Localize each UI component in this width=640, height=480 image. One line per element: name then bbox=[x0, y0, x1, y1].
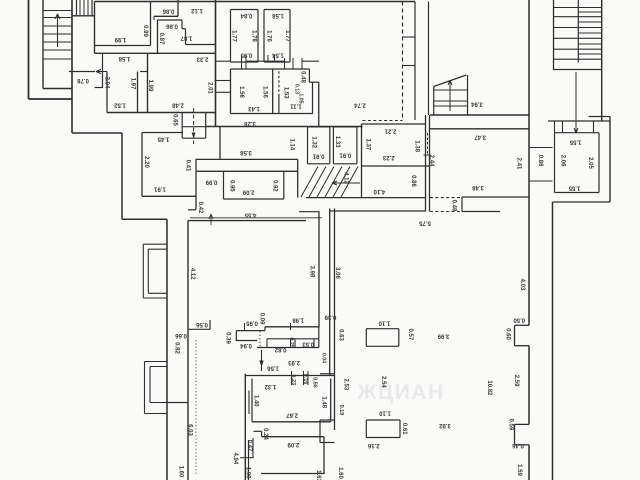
room 2.06 bbox=[555, 192, 600, 194]
wall bbox=[182, 28, 186, 30]
box room bbox=[365, 329, 367, 347]
wall bbox=[215, 0, 217, 127]
right stair tread half bbox=[578, 53, 601, 55]
outer wall bbox=[552, 202, 554, 480]
entry stair box bottom bbox=[434, 105, 468, 107]
box room bbox=[399, 420, 401, 438]
band line bbox=[529, 180, 553, 182]
wall bbox=[329, 209, 331, 376]
box room bbox=[366, 328, 399, 330]
entry stair slant bbox=[434, 75, 467, 87]
right stairs left wall bbox=[528, 0, 530, 325]
box 0.84 bbox=[257, 10, 259, 63]
svg-text:2.53: 2.53 bbox=[343, 379, 349, 391]
wall bbox=[235, 331, 237, 341]
wall bbox=[553, 201, 611, 203]
balcony outer bbox=[142, 244, 144, 298]
wall bbox=[362, 165, 430, 167]
room 2.67 bottom bbox=[252, 421, 331, 423]
room 2.09a bottom bbox=[224, 198, 284, 200]
svg-text:0.50: 0.50 bbox=[513, 316, 525, 322]
svg-text:0.95: 0.95 bbox=[229, 180, 235, 192]
stair tread bbox=[43, 58, 72, 60]
tick bbox=[291, 371, 293, 385]
mini stair arrow head bbox=[192, 133, 196, 139]
stair fan tread bbox=[325, 167, 342, 198]
tick bbox=[307, 371, 309, 385]
balcony outer bbox=[143, 243, 167, 245]
mini stair cell line bbox=[182, 126, 206, 128]
wall bbox=[428, 2, 430, 85]
stair tread bbox=[43, 10, 72, 12]
dim tick bbox=[290, 323, 292, 330]
svg-text:1.97: 1.97 bbox=[129, 78, 135, 90]
shaft line bbox=[403, 36, 416, 38]
wall bbox=[265, 326, 319, 328]
svg-text:0.47: 0.47 bbox=[246, 440, 252, 452]
svg-text:0.13: 0.13 bbox=[293, 84, 299, 94]
wall bbox=[205, 126, 363, 128]
svg-text:1.45: 1.45 bbox=[157, 135, 169, 141]
balcony inner bbox=[149, 367, 151, 403]
step bbox=[308, 69, 310, 82]
stair tread bbox=[43, 49, 72, 51]
svg-text:3.48: 3.48 bbox=[472, 184, 484, 190]
wall bbox=[528, 445, 530, 480]
svg-text:0.92: 0.92 bbox=[271, 180, 277, 192]
room 1.91 left wall bbox=[141, 133, 143, 197]
balcony outer bbox=[144, 362, 146, 414]
door stub bbox=[216, 80, 231, 82]
svg-text:1.38: 1.38 bbox=[413, 140, 419, 152]
stair fan tread bbox=[317, 167, 334, 198]
svg-text:1.12: 1.12 bbox=[191, 7, 203, 13]
svg-text:0.60: 0.60 bbox=[504, 328, 510, 340]
tick bbox=[267, 55, 269, 62]
svg-text:0.94: 0.94 bbox=[240, 342, 252, 348]
svg-text:1.98: 1.98 bbox=[244, 467, 250, 479]
upper stair wall bbox=[91, 0, 93, 16]
box E bbox=[307, 127, 309, 164]
balcony inner bbox=[148, 248, 167, 250]
svg-text:0.09: 0.09 bbox=[258, 313, 264, 325]
room 1.11 right bbox=[312, 82, 314, 113]
entry stair wall bbox=[467, 75, 469, 115]
svg-text:0.23: 0.23 bbox=[290, 374, 296, 385]
room 2.06 bbox=[554, 133, 556, 193]
tick bbox=[303, 371, 305, 385]
room 2.67 left bbox=[251, 379, 253, 422]
svg-text:0.61: 0.61 bbox=[401, 423, 407, 435]
svg-text:1.40: 1.40 bbox=[253, 395, 259, 407]
band bottom bbox=[197, 170, 298, 172]
svg-text:0.24: 0.24 bbox=[262, 428, 268, 440]
tick bbox=[292, 58, 294, 69]
right stair tread bbox=[554, 48, 602, 50]
svg-text:2.09: 2.09 bbox=[287, 441, 299, 447]
wall ticks band bbox=[246, 60, 284, 62]
stair fan tread bbox=[309, 167, 326, 198]
svg-text:2.05: 2.05 bbox=[587, 157, 593, 169]
svg-text:1.48: 1.48 bbox=[320, 396, 326, 408]
wall bbox=[320, 373, 335, 375]
wall dashed bbox=[430, 197, 462, 199]
svg-text:2.06: 2.06 bbox=[559, 155, 565, 167]
wall bbox=[154, 15, 178, 17]
outer wall bbox=[121, 133, 123, 219]
svg-text:3.58: 3.58 bbox=[240, 149, 252, 155]
niche divider bbox=[313, 339, 315, 348]
wall bbox=[248, 440, 250, 480]
svg-text:2.93: 2.93 bbox=[288, 359, 300, 365]
svg-text:1.56: 1.56 bbox=[267, 364, 279, 370]
box 1.58 bbox=[264, 61, 290, 63]
svg-text:2.41: 2.41 bbox=[516, 158, 522, 170]
balcony inner bbox=[148, 292, 167, 294]
room 2.06 bbox=[598, 133, 600, 193]
wall bbox=[209, 320, 211, 329]
wall bbox=[181, 20, 183, 29]
svg-text:2.20: 2.20 bbox=[143, 156, 149, 168]
svg-text:0.95: 0.95 bbox=[240, 51, 252, 57]
niche top bbox=[267, 338, 319, 340]
stair fan tread bbox=[341, 167, 358, 198]
balcony outer bbox=[143, 297, 167, 299]
svg-text:2.54: 2.54 bbox=[380, 376, 386, 388]
box bbox=[320, 419, 335, 421]
svg-text:1.58: 1.58 bbox=[118, 55, 130, 61]
box E bbox=[329, 127, 331, 164]
right stair arrow head bbox=[574, 128, 576, 133]
stair tread bbox=[43, 17, 72, 19]
svg-text:0.99: 0.99 bbox=[142, 25, 148, 37]
box room bbox=[366, 419, 400, 421]
svg-text:2.67: 2.67 bbox=[286, 411, 298, 417]
tick 4.94 bbox=[240, 457, 254, 459]
corridor bottom wall bbox=[188, 220, 306, 222]
right stair divider bbox=[577, 0, 579, 63]
outer wall right bbox=[609, 117, 611, 203]
mini stair arrow shaft bbox=[193, 108, 195, 144]
outer wall bottom-left bbox=[29, 98, 73, 100]
svg-text:0.48: 0.48 bbox=[450, 200, 456, 212]
box bbox=[319, 420, 321, 443]
svg-text:3.28: 3.28 bbox=[244, 120, 256, 126]
fan arrow bbox=[332, 182, 360, 184]
niche row bottom bbox=[257, 347, 319, 349]
wall bbox=[589, 116, 611, 118]
stair fan tread bbox=[301, 167, 318, 198]
svg-text:0.66: 0.66 bbox=[175, 332, 187, 338]
svg-text:10.82: 10.82 bbox=[486, 380, 492, 396]
room 2.09a left bbox=[223, 171, 225, 199]
pillar bbox=[425, 115, 427, 212]
room 2.67 right bbox=[330, 379, 332, 422]
wall bbox=[313, 81, 319, 83]
box room bbox=[365, 420, 367, 438]
room 2.33 top wall bbox=[148, 52, 216, 54]
svg-text:0.39: 0.39 bbox=[324, 313, 336, 319]
svg-text:1.32: 1.32 bbox=[264, 383, 276, 389]
entry stair arrow head bbox=[448, 80, 450, 85]
entry stair wall bbox=[433, 87, 435, 116]
right stair arrow head bbox=[576, 128, 578, 133]
svg-text:0.59: 0.59 bbox=[507, 419, 513, 431]
right stair tread bbox=[554, 7, 602, 9]
balcony inner bbox=[150, 402, 167, 404]
wall bbox=[461, 197, 463, 212]
room 2.09 jog bbox=[254, 430, 262, 432]
entry stair tread bbox=[434, 89, 468, 91]
svg-text:1.63: 1.63 bbox=[315, 470, 321, 480]
svg-text:0.56: 0.56 bbox=[196, 321, 208, 327]
svg-text:0.82: 0.82 bbox=[173, 342, 179, 354]
entry stair tread bbox=[434, 100, 468, 102]
svg-text:0.42: 0.42 bbox=[197, 202, 203, 214]
right stair tread bbox=[554, 27, 602, 29]
wall bbox=[515, 423, 530, 425]
svg-text:4.12: 4.12 bbox=[189, 268, 195, 280]
wall bbox=[330, 210, 426, 212]
svg-text:2.16: 2.16 bbox=[367, 442, 379, 448]
svg-text:1.99: 1.99 bbox=[114, 36, 126, 42]
svg-text:0.86: 0.86 bbox=[166, 22, 178, 28]
wall bbox=[306, 197, 426, 199]
stair fan tread bbox=[333, 167, 350, 198]
room 2.06 bbox=[555, 132, 600, 134]
svg-text:2.21: 2.21 bbox=[384, 127, 396, 133]
svg-text:1.56: 1.56 bbox=[261, 86, 267, 98]
corridor wall bbox=[187, 221, 189, 480]
tick bbox=[245, 56, 247, 69]
dim tick bbox=[244, 323, 246, 330]
band top bbox=[197, 158, 298, 160]
svg-text:4.12: 4.12 bbox=[343, 172, 349, 184]
stair tread bbox=[43, 25, 72, 27]
svg-text:0.78: 0.78 bbox=[77, 77, 89, 83]
box room bbox=[366, 437, 400, 439]
right stair tread half bbox=[578, 32, 601, 34]
svg-text:0.86: 0.86 bbox=[162, 7, 174, 13]
right stairs right wall bbox=[601, 0, 603, 121]
entry stair arrow head bbox=[450, 80, 452, 85]
right stair tread bbox=[554, 37, 602, 39]
svg-text:1.59: 1.59 bbox=[516, 464, 522, 476]
room 1.43 top bbox=[231, 68, 310, 70]
wall bbox=[297, 159, 299, 197]
stair arrow head bbox=[58, 14, 61, 19]
room 2.33 bottom wall bbox=[107, 112, 216, 114]
entry stair arrow bbox=[449, 80, 451, 111]
svg-text:0.84: 0.84 bbox=[240, 12, 252, 18]
svg-text:0.63: 0.63 bbox=[337, 329, 343, 341]
svg-text:2.01: 2.01 bbox=[206, 82, 212, 94]
cluster top wall bbox=[245, 375, 334, 377]
svg-text:0.95: 0.95 bbox=[246, 319, 258, 325]
box 0.84 bbox=[231, 9, 259, 11]
pillar door dashed bbox=[427, 133, 429, 154]
outer wall bbox=[122, 218, 167, 220]
svg-text:1.78: 1.78 bbox=[251, 30, 257, 42]
room 2.09 jog bbox=[261, 431, 263, 436]
upper stair tread bbox=[83, 0, 85, 16]
niche divider bbox=[318, 327, 320, 348]
svg-text:1.87: 1.87 bbox=[180, 34, 192, 40]
svg-text:2.74: 2.74 bbox=[354, 101, 366, 107]
wall bbox=[219, 127, 221, 161]
svg-text:3.06: 3.06 bbox=[334, 267, 340, 279]
wall bbox=[188, 209, 196, 211]
wall bbox=[299, 211, 319, 213]
svg-text:1.91: 1.91 bbox=[154, 185, 166, 191]
stair arrow shaft bbox=[57, 14, 59, 47]
wall bbox=[462, 211, 500, 213]
entry arrow head bbox=[96, 70, 101, 72]
box F bbox=[333, 126, 357, 128]
box 0.84 bbox=[231, 61, 259, 63]
right stair tread half bbox=[578, 43, 601, 45]
svg-text:1.37: 1.37 bbox=[365, 139, 371, 151]
outer wall bbox=[166, 219, 168, 480]
svg-text:4.03: 4.03 bbox=[519, 279, 525, 291]
wall bbox=[528, 346, 530, 425]
room B top wall bbox=[362, 123, 426, 125]
niche divider bbox=[294, 339, 296, 348]
upper stair tread bbox=[87, 0, 89, 16]
box 1.58 bbox=[263, 10, 265, 63]
svg-text:0.65: 0.65 bbox=[171, 114, 177, 126]
building top wall bbox=[95, 1, 416, 3]
svg-text:4.55: 4.55 bbox=[244, 212, 256, 218]
wall bbox=[167, 402, 188, 404]
svg-text:1.53: 1.53 bbox=[282, 87, 288, 99]
wall bbox=[462, 196, 530, 198]
shaft bottom dashed bbox=[363, 120, 403, 122]
svg-text:2.09: 2.09 bbox=[242, 189, 254, 195]
dim arrow head bbox=[209, 214, 211, 219]
wall bbox=[157, 20, 159, 53]
shaft left dashed bbox=[402, 2, 404, 121]
svg-text:4.94: 4.94 bbox=[232, 453, 238, 465]
svg-text:0.41: 0.41 bbox=[184, 160, 190, 172]
box F bbox=[356, 127, 358, 164]
svg-text:0.25: 0.25 bbox=[288, 337, 294, 348]
svg-text:3.99: 3.99 bbox=[437, 332, 449, 338]
stair tread bbox=[43, 33, 72, 35]
band line bbox=[529, 147, 553, 149]
right stair tread bbox=[554, 16, 602, 18]
niche divider bbox=[290, 339, 292, 348]
dashed opening bbox=[259, 331, 261, 348]
niche divider bbox=[266, 339, 268, 348]
wall bbox=[514, 325, 516, 345]
wall bbox=[514, 424, 516, 444]
svg-text:0.57: 0.57 bbox=[407, 329, 413, 341]
box 1.58 bbox=[289, 10, 291, 63]
door jamb bbox=[562, 121, 564, 133]
arrow shaft bbox=[261, 350, 263, 371]
fan arrow head bbox=[332, 183, 337, 185]
svg-text:1.58: 1.58 bbox=[272, 12, 284, 18]
tick bbox=[284, 58, 286, 69]
shaft right wall bbox=[414, 2, 416, 121]
box room bbox=[398, 329, 400, 347]
svg-text:1.52: 1.52 bbox=[114, 101, 126, 107]
right stair arrow bbox=[575, 72, 577, 133]
wall bbox=[515, 345, 530, 347]
svg-text:3.92: 3.92 bbox=[439, 422, 451, 428]
balcony inner bbox=[150, 366, 167, 368]
arrow head bbox=[259, 361, 263, 368]
svg-text:0.86: 0.86 bbox=[410, 175, 416, 187]
wall bbox=[318, 82, 320, 126]
svg-text:2.59: 2.59 bbox=[513, 375, 519, 387]
room 1.58 top wall bbox=[95, 52, 148, 54]
svg-text:0.39: 0.39 bbox=[224, 332, 230, 344]
box 0.84 bbox=[230, 10, 232, 63]
door stub bbox=[216, 91, 231, 93]
svg-text:1.60: 1.60 bbox=[177, 466, 183, 478]
door jamb bbox=[554, 121, 556, 133]
stair tread bbox=[43, 41, 72, 43]
right stair tread half bbox=[578, 21, 601, 23]
right stair tread half bbox=[578, 11, 601, 13]
cluster left wall bbox=[244, 374, 246, 480]
stair landing line bbox=[43, 88, 72, 90]
room 1.99 bottom wall bbox=[95, 45, 151, 47]
room 2.33 left wall bbox=[147, 53, 149, 112]
wall bbox=[185, 29, 187, 45]
svg-text:6.03: 6.03 bbox=[186, 424, 192, 436]
room 2.09 top bbox=[262, 436, 324, 438]
svg-text:1.77: 1.77 bbox=[284, 30, 290, 42]
right stair landing bbox=[554, 69, 602, 71]
svg-text:2.44: 2.44 bbox=[428, 155, 434, 167]
wall bbox=[188, 328, 210, 330]
balcony outer bbox=[145, 413, 168, 415]
wall bbox=[195, 159, 197, 210]
svg-text:0.86: 0.86 bbox=[537, 155, 543, 167]
svg-text:0.91: 0.91 bbox=[312, 152, 324, 158]
svg-text:1.76: 1.76 bbox=[266, 30, 272, 42]
room 1.99 right wall bbox=[150, 2, 152, 46]
svg-text:1.43: 1.43 bbox=[248, 105, 260, 111]
wall bbox=[428, 84, 430, 115]
box bbox=[320, 442, 335, 444]
outer wall bbox=[72, 132, 122, 134]
wall bbox=[177, 0, 179, 16]
box F bbox=[333, 163, 357, 165]
box E bbox=[308, 126, 330, 128]
wall bbox=[140, 71, 148, 73]
door jamb bbox=[593, 121, 595, 133]
staircase left wall bbox=[42, 0, 44, 89]
mini stair box bbox=[182, 137, 206, 139]
svg-text:4.10: 4.10 bbox=[373, 188, 385, 194]
rooms bottom bbox=[231, 113, 314, 115]
svg-text:0.16: 0.16 bbox=[302, 374, 308, 385]
wall bbox=[137, 72, 139, 113]
svg-text:1.32: 1.32 bbox=[310, 136, 316, 148]
dimension line 4.55 bbox=[190, 217, 322, 219]
wall bbox=[334, 209, 336, 431]
wall bbox=[72, 15, 95, 17]
room B left wall bbox=[361, 124, 363, 198]
wall bbox=[102, 53, 104, 88]
svg-text:1.60: 1.60 bbox=[337, 467, 343, 479]
wall bbox=[515, 324, 530, 326]
entry arrow shaft bbox=[96, 71, 107, 73]
